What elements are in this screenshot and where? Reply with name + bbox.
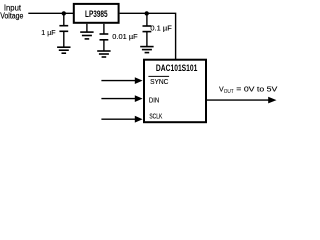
pin SCLK arrow bbox=[101, 116, 142, 123]
capacitor C 0.01uF bbox=[100, 34, 109, 40]
wire LP3985 output bbox=[120, 13, 176, 59]
wire 0.01uF stub top bbox=[103, 24, 105, 34]
capacitor C 0.1uF bbox=[143, 26, 152, 32]
svg-text:SCLK: SCLK bbox=[149, 114, 162, 121]
wire input to LP3985 bbox=[28, 12, 74, 14]
svg-text:DAC101S101: DAC101S101 bbox=[156, 63, 198, 73]
ground below 0.1uF bbox=[140, 47, 153, 53]
DAC U DAC101S101 box bbox=[144, 60, 206, 122]
ground below 0.01uF bbox=[97, 51, 110, 57]
ground below LP3985 bbox=[80, 32, 93, 39]
svg-text:DIN: DIN bbox=[149, 98, 159, 105]
svg-text:0.01 µF: 0.01 µF bbox=[112, 34, 137, 41]
node junction dot input bbox=[62, 11, 66, 15]
svg-text:Voltage: Voltage bbox=[0, 11, 24, 20]
svg-text:SYNC: SYNC bbox=[150, 79, 168, 86]
wire VOUT output arrow bbox=[207, 97, 277, 104]
svg-text:1 µF: 1 µF bbox=[41, 30, 55, 37]
label VOUT = 0V to 5V bbox=[219, 87, 278, 96]
wire 0.01uF stub bottom bbox=[103, 40, 105, 51]
capacitor C 1uF bbox=[59, 26, 68, 32]
wire 1uF stub top bbox=[63, 13, 65, 25]
wire LP3985 ground stub bbox=[86, 24, 88, 32]
pin DIN arrow bbox=[101, 95, 142, 102]
ground below 1uF bbox=[57, 47, 70, 53]
svg-text:LP3985: LP3985 bbox=[85, 9, 108, 19]
node Input Voltage label bbox=[0, 4, 24, 21]
pin label SYNC with overline bbox=[148, 76, 169, 86]
wire 0.1uF stub top bbox=[146, 13, 148, 26]
wire 0.1uF stub bottom bbox=[146, 32, 148, 47]
svg-text:0.1 µF: 0.1 µF bbox=[150, 25, 171, 32]
svg-text:OUT: OUT bbox=[224, 89, 235, 95]
regulator U LP3985 box bbox=[74, 4, 119, 23]
node junction dot output bbox=[145, 11, 149, 15]
svg-text:= 0V to 5V: = 0V to 5V bbox=[236, 87, 277, 94]
pin SYNC arrow bbox=[101, 77, 142, 84]
wire 1uF stub bottom bbox=[63, 31, 65, 47]
